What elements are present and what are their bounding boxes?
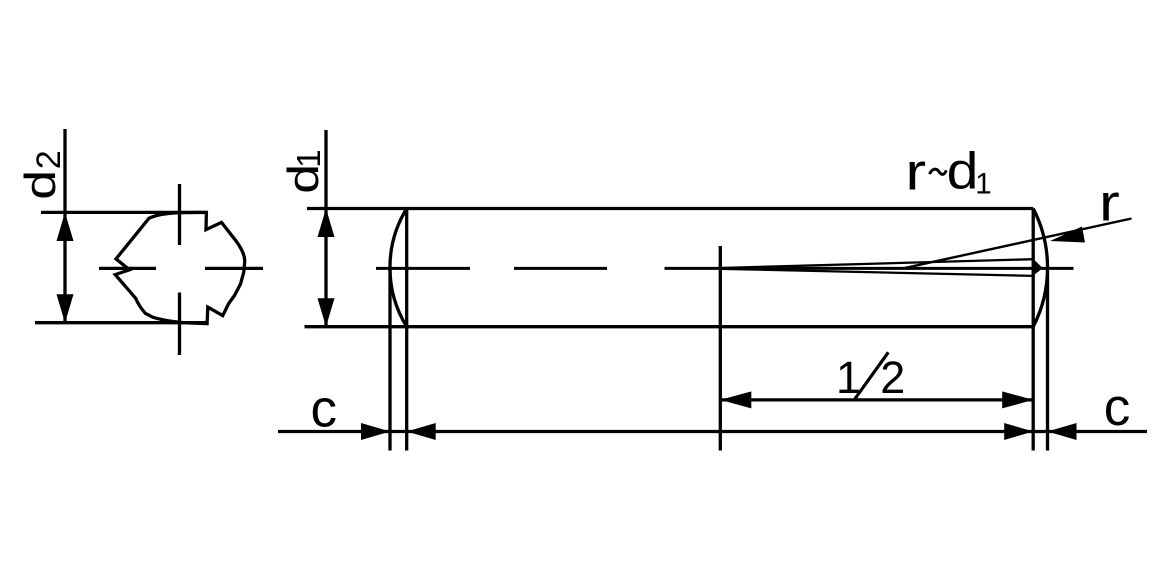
svg-text:r: r bbox=[1099, 174, 1120, 232]
svg-text:d: d bbox=[947, 142, 979, 200]
svg-text:c: c bbox=[311, 380, 338, 439]
svg-text:d: d bbox=[16, 170, 64, 200]
svg-text:c: c bbox=[1104, 378, 1131, 437]
svg-text:2: 2 bbox=[30, 150, 68, 169]
svg-text:1: 1 bbox=[290, 149, 327, 167]
svg-text:r: r bbox=[905, 143, 926, 201]
svg-text:1: 1 bbox=[975, 168, 991, 201]
